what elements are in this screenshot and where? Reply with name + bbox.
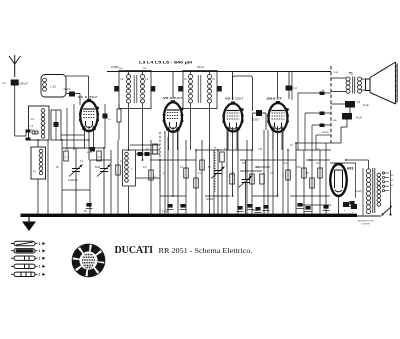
svg-text:0,1 μF: 0,1 μF bbox=[162, 211, 169, 213]
wire V3 pins bbox=[228, 127, 237, 196]
svg-text:L 10: L 10 bbox=[50, 85, 56, 89]
tube V4 bbox=[267, 97, 289, 133]
power transformer bbox=[343, 160, 394, 215]
capacitor padder box bbox=[51, 110, 61, 140]
bus junction dots bbox=[32, 214, 339, 216]
coil L10 bbox=[41, 75, 66, 98]
resistor 0.3M bbox=[286, 72, 298, 100]
coil L1 box bbox=[31, 140, 46, 215]
variable capacitor CV4 bbox=[239, 160, 253, 215]
capacitor 40uF bbox=[331, 101, 370, 113]
wire can2 leads bbox=[191, 71, 210, 216]
variable capacitor CV3 bbox=[211, 150, 225, 215]
svg-text:500 pF: 500 pF bbox=[20, 82, 28, 86]
capacitor 500pF bbox=[64, 88, 81, 105]
capacitor trimmers can1 bbox=[114, 86, 155, 92]
svg-text:INTERRUTTORE: INTERRUTTORE bbox=[358, 221, 374, 223]
svg-text:400 pF: 400 pF bbox=[197, 67, 205, 69]
capacitor grid V1 bbox=[103, 104, 112, 148]
switch interruttore bbox=[357, 170, 392, 216]
svg-text:COM.: COM. bbox=[333, 72, 339, 74]
svg-text:40 μF: 40 μF bbox=[363, 105, 370, 107]
svg-text:1: 1 bbox=[39, 249, 41, 253]
svg-text:6 TA7: 6 TA7 bbox=[85, 95, 99, 99]
wire V1 pins bbox=[61, 104, 104, 160]
svg-text:20L6 GT: 20L6 GT bbox=[267, 97, 283, 101]
wire left column bbox=[15, 126, 34, 141]
wire dashed gang link B bbox=[214, 147, 216, 192]
wire vertical drops bbox=[48, 130, 326, 215]
transformer T1 bbox=[331, 72, 366, 94]
coil L11 box bbox=[123, 150, 136, 215]
label interruttore bbox=[358, 221, 374, 226]
loudspeaker bbox=[366, 62, 398, 104]
antenna bbox=[9, 55, 20, 77]
svg-text:L3 L4 L5 L6 - 840 μH: L3 L4 L5 L6 - 840 μH bbox=[139, 61, 193, 65]
svg-text:16+16: 16+16 bbox=[355, 191, 362, 193]
label coils header bbox=[139, 61, 193, 65]
svg-text:45 μF: 45 μF bbox=[356, 118, 363, 120]
wire dashed gang link A bbox=[159, 132, 161, 190]
junction dots bbox=[37, 139, 347, 197]
svg-text:4700: 4700 bbox=[87, 152, 93, 154]
svg-text:1 M: 1 M bbox=[258, 149, 262, 151]
variable capacitor CV1 bbox=[68, 148, 83, 215]
svg-text:V3: V3 bbox=[225, 97, 230, 101]
svg-text:DUCATI: DUCATI bbox=[115, 244, 154, 256]
svg-text:4×440 pF: 4×440 pF bbox=[68, 179, 78, 182]
node left bbox=[0, 0, 1, 1]
variable capacitor CV2 bbox=[97, 148, 111, 215]
svg-text:5000: 5000 bbox=[95, 167, 101, 169]
capacitors near bus bbox=[86, 201, 356, 213]
resistors mid band bbox=[64, 144, 323, 188]
wire V2 pins bbox=[169, 127, 178, 196]
wire V4 pins bbox=[273, 126, 282, 196]
IF transformer can2 bbox=[183, 71, 217, 109]
label 400pF bbox=[197, 67, 205, 69]
svg-text:6 SS7: 6 SS7 bbox=[170, 96, 184, 100]
capacitor coupling bbox=[233, 76, 267, 150]
svg-text:T1: T1 bbox=[349, 72, 353, 76]
svg-text:5000: 5000 bbox=[252, 210, 258, 212]
title model bbox=[159, 247, 253, 255]
svg-text:500pF: 500pF bbox=[64, 88, 71, 91]
svg-text:DI RETE: DI RETE bbox=[362, 224, 371, 226]
wire can1 leads bbox=[129, 71, 143, 161]
svg-text:1: 1 bbox=[39, 265, 41, 269]
wire dashed separator bbox=[330, 66, 332, 143]
wire V3 top cap bbox=[232, 72, 234, 100]
rectifier tube 6X3 bbox=[330, 163, 356, 215]
svg-text:10.000: 10.000 bbox=[206, 199, 214, 201]
wire V2 top cap bbox=[172, 72, 174, 100]
svg-text:V2: V2 bbox=[163, 96, 168, 100]
svg-text:RR 2051 - Schema Elettrico.: RR 2051 - Schema Elettrico. bbox=[159, 247, 253, 255]
title DUCATI bbox=[115, 244, 154, 256]
wire horizontal runs bbox=[62, 140, 331, 205]
coil antenna small bbox=[32, 131, 38, 134]
wire top rail bbox=[107, 71, 331, 73]
label 500a bbox=[119, 68, 123, 70]
svg-text:1: 1 bbox=[39, 242, 41, 246]
spacer bbox=[0, 0, 1, 1]
svg-text:VERDE: VERDE bbox=[322, 132, 330, 134]
capacitor 45uF bbox=[296, 113, 363, 215]
svg-text:0,25: 0,25 bbox=[296, 167, 301, 169]
svg-text:6X3: 6X3 bbox=[347, 167, 353, 171]
svg-text:V1: V1 bbox=[78, 95, 83, 99]
coil L2 oscillator box bbox=[29, 106, 50, 140]
capacitor trimmers can2 bbox=[178, 86, 222, 92]
small parts row bbox=[136, 152, 160, 156]
ground symbol bbox=[22, 217, 36, 231]
tube V2 bbox=[163, 96, 184, 132]
svg-text:C1: C1 bbox=[3, 81, 7, 85]
svg-text:6 SS7: 6 SS7 bbox=[232, 97, 244, 101]
legend tube heater symbols bbox=[11, 241, 46, 276]
capacitor C1 bbox=[3, 80, 28, 137]
label 4700pF bbox=[111, 67, 119, 69]
wire V4 top cap bbox=[277, 72, 279, 99]
tube V3 bbox=[222, 97, 244, 132]
wire L10 to V1 bbox=[66, 76, 89, 100]
svg-text:2: 2 bbox=[39, 273, 41, 277]
value labels bbox=[56, 145, 362, 213]
svg-text:1: 1 bbox=[39, 257, 41, 261]
resistor plate V1 bbox=[117, 104, 121, 140]
label 500b bbox=[143, 68, 147, 70]
IF transformer can1 bbox=[119, 71, 151, 109]
ground bus bbox=[21, 214, 358, 217]
Ducati logo bbox=[72, 244, 105, 277]
tube V1 bbox=[78, 95, 99, 131]
wire steps to output bbox=[292, 72, 339, 161]
